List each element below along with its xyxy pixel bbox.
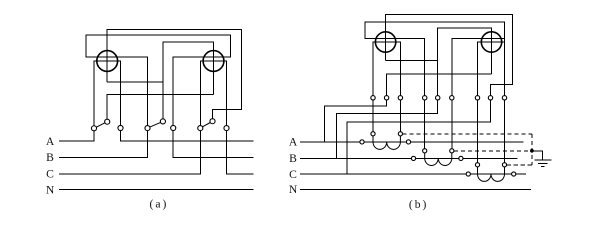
wire: phase line A (b) <box>300 141 523 143</box>
TA3 terminal K2 <box>502 163 506 167</box>
terminal 2a <box>105 119 110 124</box>
svg-text:A: A <box>46 135 55 148</box>
svg-text:(b): (b) <box>409 198 429 211</box>
CT TA3 secondary winding on phase C <box>478 167 505 182</box>
dashed earth wire from TA3 K2 <box>507 164 532 166</box>
svg-text:B: B <box>289 152 297 165</box>
wire: phase A out from terminal 3a <box>121 131 254 141</box>
terminal 1b <box>371 96 375 100</box>
svg-text:A: A <box>289 136 298 149</box>
wire: H2 link element W4 bottom to terminal 2b <box>387 74 492 96</box>
svg-text:N: N <box>289 183 298 196</box>
wire: terminal 9b to TA3 K2 <box>504 100 506 163</box>
terminal 2b <box>384 96 388 100</box>
dashed earth wire from TA2 K2 <box>454 150 532 152</box>
wire: H1 link element W3 bottom to terminal 5b vertical <box>386 60 438 62</box>
TA3 terminal K1 <box>475 163 479 167</box>
wire: voltage tap A from terminal 2b <box>324 100 386 142</box>
TA1 primary terminal L2 <box>406 140 410 144</box>
terminal 8b <box>488 96 492 100</box>
wire: current path of element W1 terminal 1a to 3a <box>94 61 121 126</box>
wire: phase B in to terminal 4a <box>59 131 148 158</box>
wire: T3 link from terminal 5b up over to element W4 top <box>438 28 492 96</box>
wire: phase A in to terminal 1a <box>59 131 94 141</box>
svg-text:B: B <box>46 151 54 164</box>
wire to ground <box>532 151 543 160</box>
TA2 terminal K1 <box>423 149 427 153</box>
terminal 6b <box>450 96 454 100</box>
wire: voltage tap B from terminal 5b <box>337 100 438 158</box>
wire: W4 chord from terminal 6b <box>452 39 505 96</box>
wire: T2 link terminal 4a through W1,W2 chords to terminal 6a <box>86 35 230 126</box>
wire: top link T1 from element W3 down-right to terminal 8b <box>386 15 513 96</box>
wire: terminal 4b to TA2 K1 <box>424 100 426 149</box>
wire: neutral N (b) <box>300 188 531 190</box>
wire: phase C in to terminal 7a <box>59 131 201 174</box>
dashed earth bus vertical <box>531 134 533 165</box>
wire: current path of element W2 terminal 7a to 9a <box>200 61 226 126</box>
terminal 7b <box>475 96 479 100</box>
terminal 3b <box>398 96 402 100</box>
terminal 9a <box>224 126 229 131</box>
wire: terminal 7b to TA3 K1 <box>477 100 479 163</box>
svg-text:C: C <box>46 168 54 181</box>
wire: phase line B (b) <box>300 157 517 159</box>
TA1 primary terminal L1 <box>360 140 364 144</box>
TA2 primary terminal L1 <box>411 156 415 160</box>
junction dot <box>530 149 534 153</box>
wire: top link T1 from element W1 down-right to terminal 8a <box>107 30 241 119</box>
terminal 4a <box>145 126 150 131</box>
terminal 6a <box>171 125 176 130</box>
svg-text:(a): (a) <box>149 198 168 211</box>
terminal 9b <box>502 96 506 100</box>
dashed earth wire from TA1 K2 <box>403 133 532 135</box>
TA1 terminal K2 <box>398 132 402 136</box>
TA2 primary terminal L2 <box>459 156 463 160</box>
ground <box>534 160 551 166</box>
TA1 terminal K1 <box>371 132 375 136</box>
voltage link 1a-2a <box>96 123 105 127</box>
TA2 terminal K2 <box>450 149 454 153</box>
voltage link 7a-8a <box>203 123 211 127</box>
terminal 7a <box>198 126 203 131</box>
wire: phase line C (b) <box>300 173 526 175</box>
meter element W2 <box>203 51 224 72</box>
wire: terminal 1b to TA1 K1 <box>372 100 374 132</box>
terminal 1a <box>91 126 96 131</box>
svg-text:C: C <box>289 168 297 181</box>
wire: terminal 3b to TA1 K2 <box>399 100 401 132</box>
wire: H2 link element W2 bottom to terminal 2a <box>107 94 213 119</box>
wire: neutral N <box>59 189 254 191</box>
terminal 4b <box>423 96 427 100</box>
meter element W3 <box>375 32 395 52</box>
wire: phase B out from terminal 6a <box>173 131 253 158</box>
TA3 primary terminal L2 <box>512 172 516 176</box>
wire: terminal 6b to TA2 K2 <box>451 100 453 149</box>
CT TA1 secondary winding on phase A <box>373 136 400 150</box>
terminal 5a <box>160 119 165 124</box>
wire: T3 link from terminal 5a up over to element W2 top <box>163 42 214 119</box>
wire: phase C out from terminal 9a <box>227 131 254 174</box>
CT TA2 secondary winding on phase B <box>425 153 452 166</box>
wire: voltage tap C from terminal 8b <box>347 100 491 174</box>
meter element W1 <box>97 51 118 72</box>
terminal 3a <box>118 125 123 130</box>
wire: H1 link element W1 bottom to B-voltage vertical <box>107 81 163 83</box>
svg-text:N: N <box>46 183 55 196</box>
meter element W4 <box>481 32 501 52</box>
terminal 5b <box>436 96 440 100</box>
wire: current path of element W3 terminal 1b to 3b <box>373 42 400 96</box>
wire: current path of element W4 terminal 7b <box>478 42 505 96</box>
wire: T2 link terminal 4b through W3 chord over to terminal 9b <box>365 22 504 96</box>
TA3 primary terminal L1 <box>466 172 470 176</box>
terminal 8a <box>210 119 215 124</box>
voltage link 4a-5a <box>150 122 161 127</box>
